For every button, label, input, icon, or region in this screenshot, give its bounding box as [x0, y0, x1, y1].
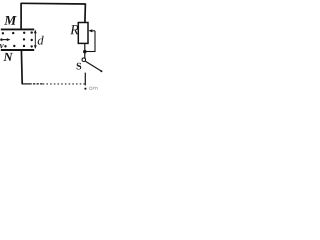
gap dimension line	[34, 31, 36, 49]
wire top horizontal	[21, 2, 85, 5]
rheostat wiper arrowhead	[88, 29, 92, 32]
faint print-through mark bottom right	[89, 87, 97, 90]
wire left upper vertical	[20, 3, 22, 30]
particle dot	[0, 38, 3, 41]
gap arrowhead up	[34, 30, 37, 34]
switch S lever tip	[100, 70, 102, 72]
artifact dot under stub	[84, 88, 86, 90]
wire right upper vertical	[84, 3, 87, 22]
field dot row2 d	[31, 39, 33, 41]
capacitor plate N	[1, 49, 34, 51]
rheostat wiper arrow shaft	[92, 30, 95, 32]
wire wiper tail vertical	[94, 31, 96, 52]
gap arrowhead down	[34, 45, 37, 49]
wire wiper tail horizontal	[85, 51, 96, 53]
field dot row3 b	[13, 45, 15, 47]
field dot row1 b	[12, 32, 14, 34]
field dot row3 d	[31, 45, 33, 47]
field dot row3 b	[4, 45, 6, 47]
capacitor plate M	[1, 28, 34, 30]
field dot row3 c	[23, 45, 25, 47]
field dot row1 c	[23, 32, 25, 34]
switch S terminal circle	[82, 58, 86, 62]
junction node dot	[83, 50, 87, 54]
wire left lower vertical	[20, 50, 23, 84]
field dot row2 c	[23, 38, 25, 40]
wire switch bottom stub	[84, 73, 86, 86]
gap label d	[38, 36, 44, 45]
velocity label v	[0, 44, 4, 48]
switch S lever	[85, 61, 101, 71]
plate label M	[4, 16, 17, 25]
field dot row1 a	[2, 32, 4, 34]
wire bottom solid part	[22, 83, 31, 85]
wire below resistor	[84, 43, 86, 58]
velocity arrow shaft	[3, 39, 8, 41]
switch label S	[77, 63, 82, 70]
velocity arrowhead	[7, 38, 11, 41]
field dot row1 d	[31, 31, 33, 33]
plate label N	[3, 53, 13, 61]
wire bottom dashed	[42, 83, 85, 85]
resistor R box	[78, 23, 88, 44]
resistor label R	[70, 25, 78, 34]
